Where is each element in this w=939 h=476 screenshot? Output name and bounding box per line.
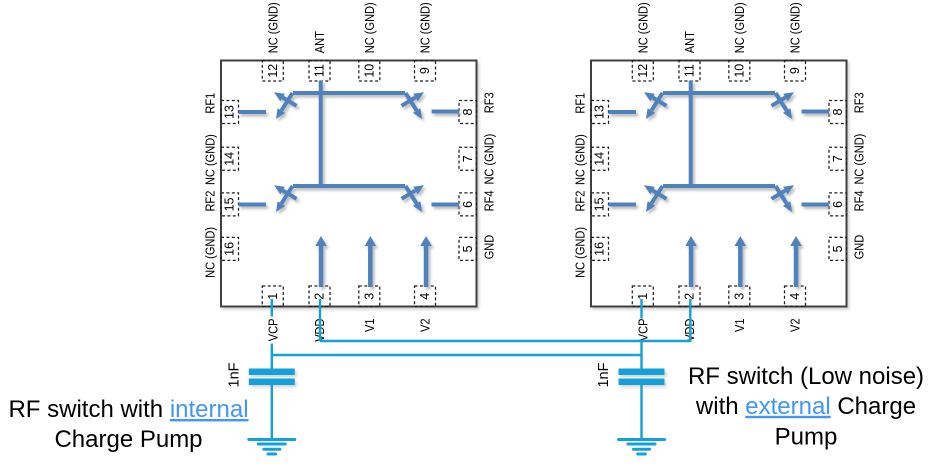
ground symbol under C2 xyxy=(619,440,665,455)
U2 pin 3 box xyxy=(729,286,750,307)
svg-text:V2: V2 xyxy=(788,319,803,333)
svg-text:10: 10 xyxy=(732,64,746,78)
svg-text:NC (GND): NC (GND) xyxy=(418,2,433,53)
U1 pin 4 box xyxy=(415,286,436,307)
svg-text:12: 12 xyxy=(266,64,280,78)
U1 pin 6 box xyxy=(459,193,477,216)
svg-text:NC (GND): NC (GND) xyxy=(203,227,218,278)
U2 pin 7 box xyxy=(829,147,847,170)
svg-text:VCP: VCP xyxy=(635,319,650,342)
svg-text:11: 11 xyxy=(313,64,327,77)
wire U2 VCP pin1 to C2 xyxy=(640,299,642,369)
U2 switch to RF3 (pin 8) xyxy=(772,92,795,119)
svg-text:with external Charge: with external Charge xyxy=(695,393,916,420)
U1 RF3 pin 8 stub wire xyxy=(432,110,460,114)
U1 pin 8 box xyxy=(459,101,477,124)
U2 pin 16 box xyxy=(591,237,609,260)
svg-text:RF switch (Low noise): RF switch (Low noise) xyxy=(688,363,924,390)
U2 pin 4 box xyxy=(785,286,806,307)
svg-text:RF3: RF3 xyxy=(482,92,497,113)
U1 ANT net vertical wire xyxy=(319,81,323,189)
svg-text:15: 15 xyxy=(593,197,607,211)
U1 lower switch bus wire xyxy=(293,184,405,188)
svg-text:12: 12 xyxy=(636,64,650,78)
U2 switch to RF2 (pin 15) xyxy=(644,185,667,212)
U1 RF4 pin 6 stub wire xyxy=(432,203,460,207)
U1 pin 15 box xyxy=(221,193,239,216)
wire C1 to ground xyxy=(271,385,273,439)
U2 RF3 pin 8 stub wire xyxy=(802,110,830,114)
wire U2 VDD pin2 down xyxy=(689,299,691,342)
U2 V2 supply arrow (pin 4) xyxy=(790,236,802,287)
U1 pin 14 box xyxy=(221,147,239,170)
U2 V1 supply arrow (pin 3) xyxy=(735,236,747,287)
svg-text:2: 2 xyxy=(683,293,697,300)
svg-text:NC (GND): NC (GND) xyxy=(788,2,803,53)
wire U1 VDD pin2 down xyxy=(319,299,321,341)
U1 pin 9 box xyxy=(415,61,436,82)
U1 switch to RF1 (pin 13) xyxy=(274,92,297,119)
U2 pin 10 box xyxy=(729,61,750,82)
IC U2 outline xyxy=(591,61,847,307)
svg-text:2: 2 xyxy=(313,293,327,300)
U2 RF2 pin 15 stub wire xyxy=(609,203,637,207)
svg-text:16: 16 xyxy=(593,242,607,256)
U2 pin 15 box xyxy=(591,193,609,216)
svg-text:9: 9 xyxy=(788,67,802,74)
U1 pin 5 box xyxy=(459,237,477,260)
U1 upper switch bus wire xyxy=(293,91,405,95)
capacitor C2 1nF xyxy=(619,369,665,386)
U2 pin 11 box xyxy=(679,61,700,82)
svg-text:RF2: RF2 xyxy=(573,191,588,212)
wire C2 to ground xyxy=(640,385,642,439)
wire U1 VCP pin1 to C1 (net VCP) xyxy=(271,299,273,369)
svg-text:NC (GND): NC (GND) xyxy=(573,134,588,185)
U1 switch to RF4 (pin 6) xyxy=(402,185,425,212)
svg-text:1: 1 xyxy=(266,293,280,300)
svg-text:11: 11 xyxy=(683,64,697,77)
U1 pin 1 box xyxy=(262,286,283,307)
U1 pin 16 box xyxy=(221,237,239,260)
IC U1 outline xyxy=(221,61,477,307)
svg-text:NC (GND): NC (GND) xyxy=(852,134,867,185)
wire VDD net horizontal U1 to U2 xyxy=(320,340,690,342)
svg-text:14: 14 xyxy=(223,152,237,166)
U1 pin 12 box xyxy=(262,61,283,82)
svg-text:16: 16 xyxy=(223,242,237,256)
svg-text:4: 4 xyxy=(788,293,802,300)
svg-text:6: 6 xyxy=(461,201,475,208)
svg-text:8: 8 xyxy=(461,108,475,115)
U2 pin 13 box xyxy=(591,101,609,124)
U2 switch to RF1 (pin 13) xyxy=(644,92,667,119)
svg-text:ANT: ANT xyxy=(312,31,327,53)
svg-text:5: 5 xyxy=(461,245,475,252)
svg-text:5: 5 xyxy=(831,245,845,252)
svg-text:7: 7 xyxy=(461,155,475,162)
U2 pin 6 box xyxy=(829,193,847,216)
svg-text:Pump: Pump xyxy=(775,423,838,450)
U2 pin 5 box xyxy=(829,237,847,260)
svg-text:13: 13 xyxy=(223,105,237,119)
svg-text:14: 14 xyxy=(593,152,607,166)
U1 V1 supply arrow (pin 3) xyxy=(365,236,377,287)
svg-text:NC (GND): NC (GND) xyxy=(732,2,747,53)
U2 pin 14 box xyxy=(591,147,609,170)
U1 VDD supply arrow (pin 2) xyxy=(315,236,327,287)
U1 pin 13 box xyxy=(221,101,239,124)
U2 ANT net vertical wire xyxy=(689,81,693,189)
svg-text:NC (GND): NC (GND) xyxy=(362,2,377,53)
U1 switch to RF3 (pin 8) xyxy=(402,92,425,119)
svg-text:1: 1 xyxy=(636,293,650,300)
U2 RF1 pin 13 stub wire xyxy=(609,110,637,114)
U1 V2 supply arrow (pin 4) xyxy=(420,236,432,287)
svg-text:RF4: RF4 xyxy=(482,190,497,211)
svg-text:NC (GND): NC (GND) xyxy=(635,2,650,53)
svg-text:GND: GND xyxy=(852,235,867,260)
U2 lower switch bus wire xyxy=(663,184,775,188)
wire VCP net horizontal U1 to U2 xyxy=(272,354,642,356)
U2 switch to RF4 (pin 6) xyxy=(772,185,795,212)
svg-text:10: 10 xyxy=(362,64,376,78)
U1 pin 10 box xyxy=(359,61,380,82)
U1 pin 3 box xyxy=(359,286,380,307)
svg-text:NC (GND): NC (GND) xyxy=(203,134,218,185)
svg-text:1nF: 1nF xyxy=(227,362,243,387)
caption: RF switch with internal Charge Pump xyxy=(8,396,248,453)
U1 switch to RF2 (pin 15) xyxy=(274,185,297,212)
svg-text:RF2: RF2 xyxy=(203,191,218,212)
svg-text:VCP: VCP xyxy=(265,319,280,342)
svg-text:7: 7 xyxy=(831,155,845,162)
svg-text:3: 3 xyxy=(732,293,746,300)
svg-text:1nF: 1nF xyxy=(596,362,612,387)
svg-text:9: 9 xyxy=(418,67,432,74)
U1 pin 7 box xyxy=(459,147,477,170)
U1 pin 11 box xyxy=(309,61,330,82)
svg-text:Charge Pump: Charge Pump xyxy=(54,426,202,453)
U1 RF2 pin 15 stub wire xyxy=(239,203,267,207)
capacitor C1 1nF xyxy=(249,369,295,386)
caption: RF switch (Low noise) with external Charge Pump xyxy=(688,363,924,450)
ground symbol under C1 xyxy=(249,440,295,455)
svg-text:NC (GND): NC (GND) xyxy=(482,134,497,185)
U2 pin 9 box xyxy=(785,61,806,82)
U2 pin 12 box xyxy=(632,61,653,82)
U2 pin 2 box xyxy=(679,286,700,307)
U2 pin 1 box xyxy=(632,286,653,307)
svg-text:V2: V2 xyxy=(418,319,433,333)
svg-text:NC (GND): NC (GND) xyxy=(265,2,280,53)
svg-text:RF1: RF1 xyxy=(573,93,588,114)
U2 RF4 pin 6 stub wire xyxy=(802,203,830,207)
svg-text:6: 6 xyxy=(831,201,845,208)
svg-text:RF switch with internal: RF switch with internal xyxy=(8,396,248,423)
svg-text:15: 15 xyxy=(223,197,237,211)
U1 RF1 pin 13 stub wire xyxy=(239,110,267,114)
svg-text:ANT: ANT xyxy=(682,31,697,53)
U1 pin 2 box xyxy=(309,286,330,307)
svg-text:NC (GND): NC (GND) xyxy=(573,227,588,278)
U2 pin 8 box xyxy=(829,101,847,124)
svg-text:4: 4 xyxy=(418,293,432,300)
svg-text:13: 13 xyxy=(593,105,607,119)
svg-text:8: 8 xyxy=(831,108,845,115)
svg-text:RF1: RF1 xyxy=(203,93,218,114)
svg-text:RF4: RF4 xyxy=(852,190,867,211)
svg-text:3: 3 xyxy=(362,293,376,300)
U2 VDD supply arrow (pin 2) xyxy=(685,236,697,287)
svg-text:RF3: RF3 xyxy=(852,92,867,113)
svg-text:GND: GND xyxy=(482,235,497,260)
U2 upper switch bus wire xyxy=(663,91,775,95)
svg-text:V1: V1 xyxy=(362,319,377,333)
svg-text:V1: V1 xyxy=(732,319,747,333)
